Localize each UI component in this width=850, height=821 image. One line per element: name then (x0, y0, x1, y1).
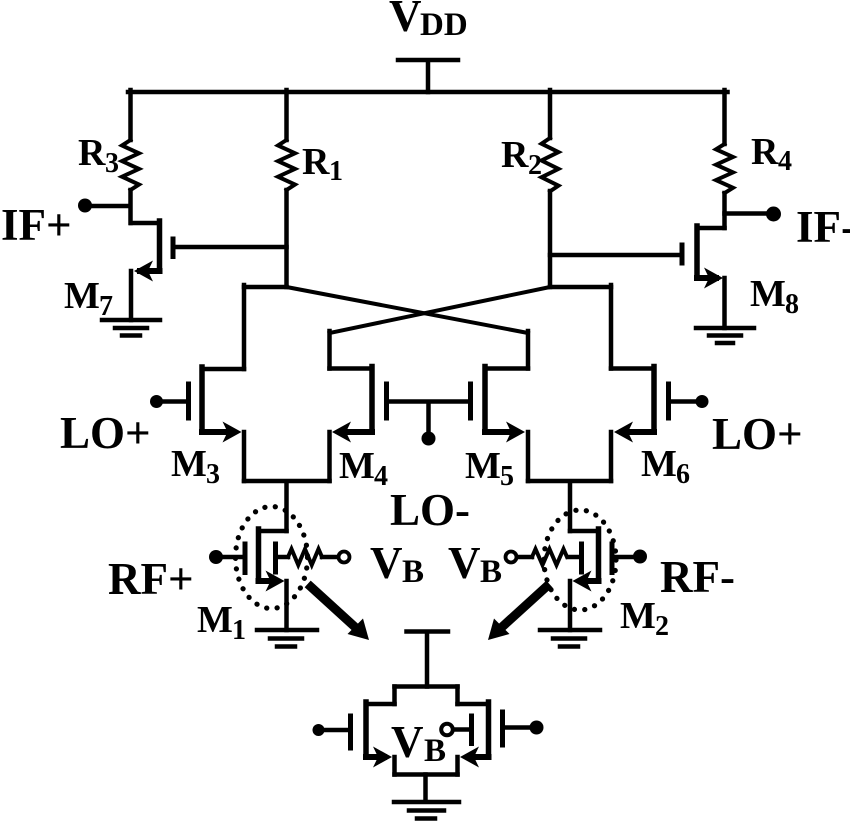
terminal VB right (506, 552, 517, 563)
label RF+ (108, 554, 194, 604)
svg-text:B: B (402, 554, 424, 590)
transistor M6 (611, 285, 709, 481)
label M6 (641, 443, 690, 490)
label M2 (620, 595, 669, 642)
body bar tail (469, 716, 474, 744)
transistor M5 (471, 331, 529, 481)
svg-text:V: V (448, 538, 481, 588)
label IF- (796, 202, 850, 252)
label LO+ right (712, 409, 803, 459)
svg-text:7: 7 (99, 291, 113, 322)
svg-text:V: V (370, 538, 403, 588)
label M5 (465, 445, 514, 492)
svg-text:LO+: LO+ (712, 409, 803, 459)
svg-text:3: 3 (206, 459, 220, 490)
label M3 (171, 443, 220, 490)
ground M2 (540, 630, 600, 647)
svg-text:4: 4 (778, 146, 792, 177)
svg-text:V: V (391, 717, 424, 767)
node LO- (422, 432, 436, 446)
wire cross-couple diagonal 2 (330, 287, 551, 333)
label M4 (339, 445, 388, 492)
label VB left (370, 538, 424, 590)
svg-text:M: M (171, 443, 207, 485)
svg-text:RF-: RF- (660, 552, 735, 602)
svg-text:6: 6 (676, 459, 690, 490)
wire drain rail right (550, 285, 611, 290)
svg-text:LO+: LO+ (60, 408, 151, 458)
label M1 (197, 599, 246, 646)
svg-text:2: 2 (655, 611, 669, 642)
svg-text:V: V (389, 0, 422, 41)
svg-text:1: 1 (329, 156, 343, 187)
svg-text:R: R (751, 131, 779, 173)
wire source rail left pair (244, 481, 330, 531)
label RF- (660, 552, 735, 602)
ground M7 (102, 320, 160, 336)
wire drain rail left (244, 285, 287, 290)
svg-text:IF+: IF+ (1, 200, 72, 250)
transistor M0 tail pair (325, 687, 531, 801)
label VB right (448, 538, 502, 590)
svg-text:8: 8 (785, 289, 799, 320)
pointer arrow left (311, 587, 369, 640)
resistor body bias right (532, 549, 567, 565)
wire to VB terminal right (518, 555, 532, 560)
svg-text:R: R (501, 134, 529, 176)
ground tail (394, 802, 459, 819)
svg-text:M: M (64, 275, 100, 317)
resistor R3 (122, 90, 139, 223)
svg-text:5: 5 (500, 461, 514, 492)
node tail drain terminal (407, 632, 449, 687)
transistor M8 (550, 226, 725, 328)
node IF+ (78, 199, 130, 213)
resistor R2 (542, 90, 559, 287)
ellipse M2 highlight (544, 510, 616, 610)
label VB bottom (391, 717, 446, 769)
svg-text:IF-: IF- (796, 202, 850, 252)
resistor R4 (716, 90, 733, 228)
svg-text:M: M (641, 443, 677, 485)
svg-text:3: 3 (105, 148, 119, 179)
svg-text:B: B (480, 554, 502, 590)
terminal VB left (339, 552, 350, 563)
ground M1 (257, 630, 317, 647)
wire to VB terminal left (322, 555, 337, 560)
svg-text:M: M (750, 273, 786, 315)
ellipse M1 highlight (236, 507, 308, 609)
svg-text:RF+: RF+ (108, 554, 194, 604)
label R2 (501, 134, 542, 181)
transistor M2 (569, 529, 634, 630)
node gate tail left (313, 724, 325, 736)
transistor M7 (131, 221, 287, 320)
node gate tail right (530, 721, 544, 735)
wire source rail right pair (528, 481, 611, 531)
wire LO- gate link (387, 402, 470, 434)
label M8 (750, 273, 799, 320)
svg-text:R: R (302, 141, 330, 183)
svg-text:M: M (620, 595, 656, 637)
label R3 (78, 132, 119, 179)
svg-text:M: M (339, 445, 375, 487)
resistor R1 (278, 90, 295, 287)
label LO- (390, 485, 470, 535)
label R4 (751, 131, 792, 177)
svg-text:R: R (78, 132, 106, 174)
wire cross-couple diagonal 1 (287, 287, 529, 333)
node RF+ (209, 550, 223, 564)
svg-text:2: 2 (528, 150, 542, 181)
label IF+ (1, 200, 72, 250)
label LO+ left (60, 408, 151, 458)
transistor M4 (330, 331, 387, 481)
svg-text:M: M (465, 445, 501, 487)
svg-text:M: M (197, 599, 233, 641)
terminal VB bottom (441, 724, 470, 736)
svg-text:4: 4 (374, 461, 388, 492)
ground M8 (696, 328, 754, 343)
VDD supply symbol (398, 60, 458, 92)
svg-text:DD: DD (420, 7, 468, 43)
resistor body bias left (288, 549, 322, 565)
label R1 (302, 141, 343, 187)
svg-text:B: B (424, 733, 446, 769)
label M7 (64, 275, 113, 322)
VDD label (389, 0, 468, 43)
wire top power rail (128, 90, 728, 95)
svg-text:1: 1 (232, 615, 246, 646)
transistor M1 (221, 529, 288, 630)
node IF- (725, 207, 782, 222)
pointer arrow right (488, 587, 546, 640)
node RF- (633, 550, 647, 564)
svg-text:LO-: LO- (390, 485, 470, 535)
transistor M3 (150, 285, 244, 481)
